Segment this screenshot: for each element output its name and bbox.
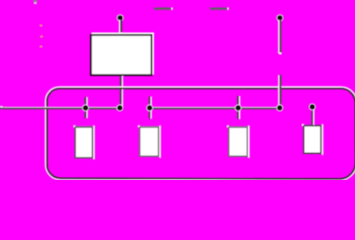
node N5 [276, 104, 283, 111]
toolbar dash 1 [154, 8, 172, 10]
node N3 [146, 104, 153, 111]
node dot top right [276, 14, 283, 21]
bus wire left segment [0, 106, 3, 108]
wire: block B1 to bus node [120, 76, 122, 108]
node N2 [116, 104, 123, 111]
wire: right vertical lower segment [278, 75, 279, 108]
enclosure rounded rectangle [45, 87, 355, 181]
box M2 [159, 125, 161, 158]
bus wire right segment [150, 107, 280, 108]
box M1 [93, 125, 95, 159]
stub wire through node N1 [85, 97, 87, 118]
orange speck 3 [40, 45, 43, 47]
stub wire through node N3 [149, 97, 151, 119]
orange speck 2 [40, 35, 43, 37]
stub wire from node N6 to box M4 [311, 107, 313, 126]
wire: right vertical upper segment [278, 20, 279, 54]
node dot top of block B1 [117, 14, 124, 21]
box M3 [248, 125, 250, 158]
stub wire through node N4 [237, 96, 239, 119]
node N1 [82, 104, 89, 111]
toolbar dash 2 [210, 8, 228, 10]
wire: top node to block B1 [119, 20, 120, 34]
clipped widget mark top-left [34, 0, 38, 3]
box M4 [322, 124, 324, 155]
block B1 [92, 33, 155, 75]
node N6 [309, 103, 316, 110]
orange speck 1 [40, 24, 43, 26]
node N4 [235, 104, 242, 111]
